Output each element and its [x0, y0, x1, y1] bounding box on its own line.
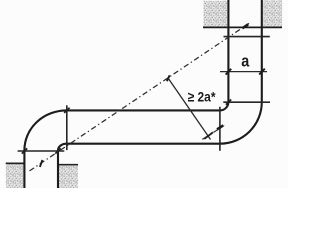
svg-text:a: a [241, 52, 249, 71]
svg-text:≥ 2a*: ≥ 2a* [188, 88, 216, 104]
